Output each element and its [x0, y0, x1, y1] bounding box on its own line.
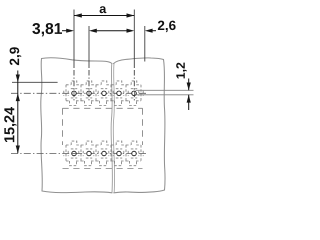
pin hole row2 #5: [132, 151, 137, 156]
extension line pin col 2: [88, 26, 90, 68]
middle break line: [111, 63, 112, 192]
pin hole row1 #5: [132, 91, 137, 96]
pin hole row2 #3: [102, 151, 107, 156]
dimension 15,24 label: [4, 107, 16, 142]
dimension 2,9 label: [10, 47, 22, 65]
extension lines pin width (1,2): [136, 90, 194, 95]
pin hole row2 #1: [72, 151, 77, 156]
pin hole row1 #2: [87, 91, 92, 96]
pin hole row2 #4: [117, 151, 122, 156]
extension line housing front (2,9): [12, 81, 58, 83]
dimension 2,9 / 15,24 line: [17, 71, 19, 154]
pin hole row2 #2: [87, 151, 92, 156]
extension line housing right end: [144, 26, 146, 62]
pin hole row1 #3: [102, 91, 107, 96]
dimension 3,81 label: [32, 23, 62, 36]
row 2 centerline (dash-dot): [11, 153, 147, 155]
dimension 2,6 label: [158, 21, 176, 32]
pin hole row1 #1: [72, 91, 77, 96]
centerline ticks through dimensioned pins: [74, 92, 134, 95]
dimension a label: [100, 6, 107, 13]
row 1 centerline (dash-dot): [11, 92, 147, 94]
dimension 1,2 line: [188, 79, 190, 111]
housing contour row 2 (dashed): [64, 141, 143, 166]
extension line pin col 1: [73, 10, 75, 69]
dimension 3,81 arrows: [62, 30, 67, 32]
dimension a line: [74, 15, 134, 17]
housing end walls between rows (dashed verticals): [63, 108, 143, 145]
component body outline with break lines (gray): [41, 58, 165, 193]
dimension 2,6 arrows: [127, 29, 135, 33]
extension line pin col 5: [133, 10, 135, 69]
housing contour row 1 (dashed): [64, 81, 143, 106]
dimension 1,2 label: [176, 63, 186, 79]
housing rear edge row 2 (long dashed line): [63, 168, 143, 170]
housing rear edge row 1 (long dashed line): [63, 107, 143, 109]
centerline tick through row2 pin1: [72, 153, 75, 155]
pin hole row1 #4: [117, 91, 122, 96]
